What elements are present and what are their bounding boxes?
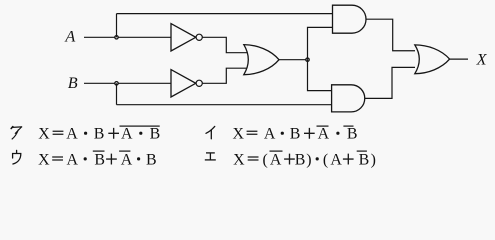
node A junction — [115, 36, 118, 39]
svg-text:X: X — [232, 126, 244, 143]
wire B branch down — [116, 83, 118, 104]
option label katakana I (i) — [206, 126, 215, 138]
wire B input — [84, 82, 171, 84]
wire bottom feed to AND2 — [117, 104, 332, 106]
formula E: X=(overline(A)+B)·(A+overline(B)) — [233, 151, 376, 168]
svg-text:X: X — [38, 126, 50, 143]
formula I: X=A·B+overline(A)·overline(B) — [232, 126, 357, 143]
svg-text:A: A — [270, 151, 282, 168]
svg-text:): ) — [371, 151, 376, 168]
inverter NOT2 — [171, 70, 196, 97]
wire junction down to AND2 — [308, 60, 332, 91]
svg-text:A: A — [64, 27, 75, 45]
overline over A in option e — [270, 151, 283, 152]
wire AND2 output to OR2 — [365, 67, 415, 98]
wire A input — [84, 36, 171, 38]
wire NOT1 output to OR1 — [202, 37, 247, 52]
or-gate OR1 — [244, 45, 279, 75]
inverter NOT2 bubble — [196, 80, 202, 86]
svg-text:(: ( — [323, 151, 328, 168]
svg-text:A: A — [121, 126, 133, 143]
inverter NOT1 bubble — [196, 34, 202, 40]
svg-text:(: ( — [263, 151, 268, 168]
svg-text:A: A — [318, 126, 330, 143]
option label katakana U (u) — [13, 150, 21, 164]
overline over A in option u — [119, 151, 130, 152]
wire AND1 output to OR2 — [366, 19, 415, 51]
wire A branch up — [116, 14, 118, 38]
svg-text:B: B — [94, 126, 105, 143]
overline over B in option i — [343, 126, 353, 127]
svg-text:B: B — [146, 151, 157, 168]
svg-text:): ) — [306, 151, 311, 168]
svg-text:X: X — [233, 151, 245, 168]
wire top feed to AND1 — [117, 13, 333, 15]
svg-text:B: B — [94, 151, 105, 168]
overline over B in option e — [357, 151, 367, 152]
node B junction — [115, 82, 118, 85]
svg-text:B: B — [295, 151, 306, 168]
formula U: X=A·overline(B)+overline(A)·B — [38, 151, 156, 168]
overline over A·B in option a — [120, 126, 160, 127]
svg-text:B: B — [347, 126, 358, 143]
svg-text:A: A — [121, 151, 133, 168]
svg-text:B: B — [359, 151, 370, 168]
option label katakana A (a) — [11, 127, 21, 139]
or-gate OR2 — [415, 45, 450, 74]
formula A: X=A·B+overline(A·B) — [38, 126, 160, 143]
svg-text:A: A — [66, 151, 78, 168]
svg-text:B: B — [290, 126, 301, 143]
svg-text:B: B — [68, 74, 78, 92]
overline over A in option i — [317, 126, 329, 127]
svg-text:A: A — [66, 126, 78, 143]
svg-text:B: B — [150, 126, 161, 143]
option label katakana E (e) — [205, 153, 216, 160]
svg-text:X: X — [38, 151, 50, 168]
overline over B in option u — [93, 151, 105, 152]
svg-text:X: X — [476, 51, 488, 69]
inverter NOT1 — [171, 24, 196, 51]
svg-text:A: A — [264, 126, 276, 143]
wire X output — [450, 58, 468, 60]
and-gate AND2 — [332, 85, 365, 112]
and-gate AND1 — [333, 5, 367, 33]
node OR1 output junction — [306, 58, 309, 61]
svg-text:A: A — [330, 151, 342, 168]
wire NOT2 output to OR1 — [202, 68, 247, 83]
wire OR1 output — [279, 59, 308, 61]
wire junction up to AND1 — [308, 27, 333, 59]
